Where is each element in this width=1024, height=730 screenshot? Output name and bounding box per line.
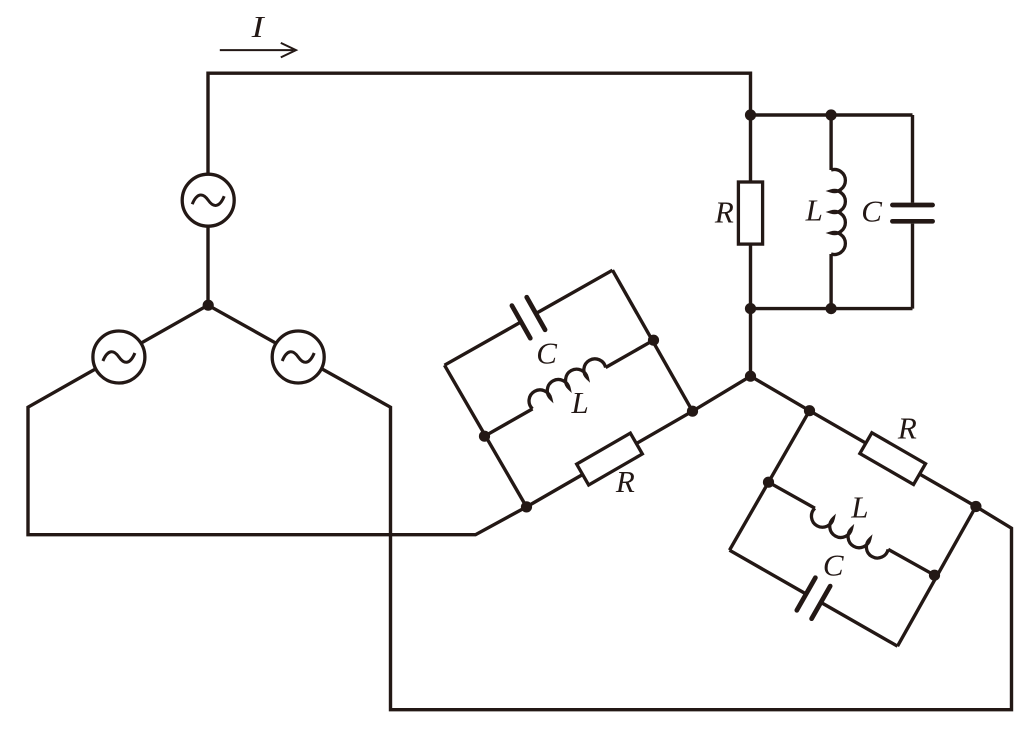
wire: star diagonal to left source, left vertical, bottom-left horizontal, diagonal up to middle RLC node bbox=[28, 305, 527, 535]
node: top bus left junction bbox=[745, 109, 756, 120]
wire: L1 branch stubs (top-right RLC) bbox=[829, 115, 832, 309]
wire: C1 branch stubs (top-right RLC) bbox=[911, 115, 914, 309]
wire: bottom-right RLC right side bbox=[898, 507, 976, 647]
svg-text:C: C bbox=[861, 194, 882, 229]
node: bottom-right RLC top bbox=[804, 405, 815, 416]
resistor R2 (middle RLC) bbox=[577, 433, 643, 485]
wire: C2 branch stubs (middle RLC) bbox=[445, 270, 613, 365]
capacitor C3 (bottom-right RLC) bbox=[797, 578, 830, 619]
capacitor C1 (top-right RLC) bbox=[892, 205, 932, 221]
node: center junction bbox=[745, 371, 756, 382]
svg-text:L: L bbox=[850, 490, 868, 525]
node: middle RLC left L tap bbox=[479, 431, 490, 442]
wire: middle RLC left side bbox=[445, 365, 527, 507]
wire: star diagonal to right source, vertical, bottom horizontal, right vertical, diagonal to bottom-right RLC node bbox=[208, 305, 1012, 710]
current arrow I bbox=[220, 43, 296, 58]
svg-text:R: R bbox=[714, 194, 734, 229]
node: bottom-right RLC right L tap bbox=[929, 570, 940, 581]
svg-text:R: R bbox=[615, 464, 635, 499]
ac source V3 (right) bbox=[272, 331, 324, 383]
node: top bus L junction bbox=[826, 109, 837, 120]
wire: L2 branch stubs (middle RLC) bbox=[485, 340, 654, 436]
ac source V2 (left) bbox=[93, 331, 145, 383]
svg-text:C: C bbox=[823, 547, 844, 582]
node: bottom-right RLC right bbox=[970, 501, 981, 512]
node: bottom-right RLC left L tap bbox=[763, 477, 774, 488]
wire: bottom-right RLC main diagonal (R3 branch) bbox=[751, 376, 976, 506]
wire: bottom bus of top-right RLC bbox=[751, 307, 913, 310]
resistor R1 (top-right RLC) bbox=[738, 182, 762, 244]
wire: middle RLC main diagonal (R2 branch) bbox=[527, 376, 751, 507]
wire: L3 branch stubs (bottom-right RLC) bbox=[769, 482, 935, 575]
node: star point bbox=[203, 300, 214, 311]
node: bottom bus left junction bbox=[745, 303, 756, 314]
wire: C3 branch stubs (bottom-right RLC) bbox=[730, 550, 898, 646]
svg-text:L: L bbox=[570, 385, 588, 420]
inductor L1 (top-right RLC) bbox=[831, 170, 845, 255]
ac source V1 (top) bbox=[182, 174, 234, 226]
inductor L2 (middle RLC) bbox=[525, 355, 606, 409]
inductor L3 (bottom-right RLC) bbox=[807, 508, 888, 562]
svg-text:I: I bbox=[251, 10, 266, 44]
node: middle RLC right lower bbox=[687, 406, 698, 417]
svg-text:L: L bbox=[805, 193, 823, 228]
capacitor C2 (middle RLC) bbox=[512, 297, 545, 338]
resistor R3 (bottom-right RLC) bbox=[860, 433, 926, 485]
node: middle RLC bottom-left bbox=[521, 501, 532, 512]
wire: phase-1 feed, top-left vertical + top horizontal + right vertical down through R to center junction bbox=[208, 73, 751, 376]
node: middle RLC right L tap bbox=[648, 335, 659, 346]
wire: top bus of top-right RLC bbox=[751, 113, 913, 116]
svg-text:R: R bbox=[897, 411, 917, 446]
wire: middle RLC right side bbox=[613, 270, 693, 411]
node: bottom bus L junction bbox=[826, 303, 837, 314]
wire: bottom-right RLC left side bbox=[730, 411, 810, 551]
svg-text:C: C bbox=[536, 336, 557, 371]
